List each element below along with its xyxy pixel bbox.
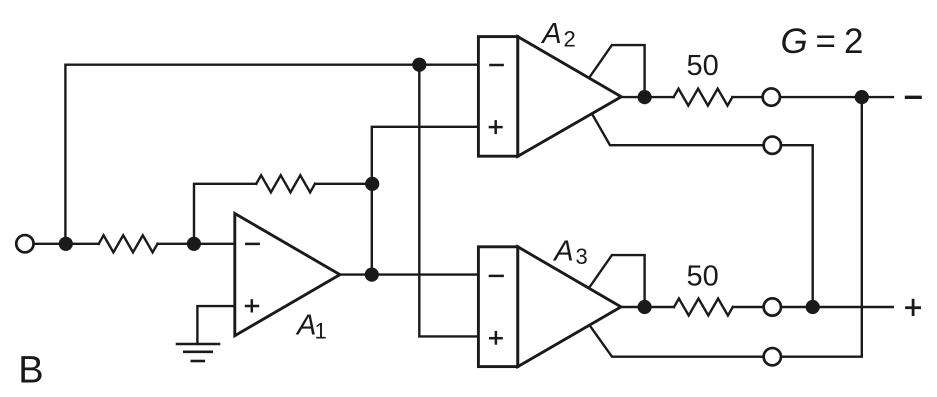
svg-text:A: A <box>540 18 561 50</box>
svg-text:2: 2 <box>564 26 576 51</box>
svg-text:3: 3 <box>576 244 588 269</box>
svg-text:B: B <box>18 350 43 392</box>
svg-text:A: A <box>552 235 573 267</box>
svg-text:50: 50 <box>686 50 718 82</box>
svg-text:2: 2 <box>844 22 863 61</box>
svg-text:A: A <box>295 310 316 342</box>
svg-text:1: 1 <box>315 318 327 343</box>
svg-text:=: = <box>816 22 836 61</box>
svg-text:G: G <box>781 22 808 61</box>
svg-text:50: 50 <box>686 260 718 292</box>
